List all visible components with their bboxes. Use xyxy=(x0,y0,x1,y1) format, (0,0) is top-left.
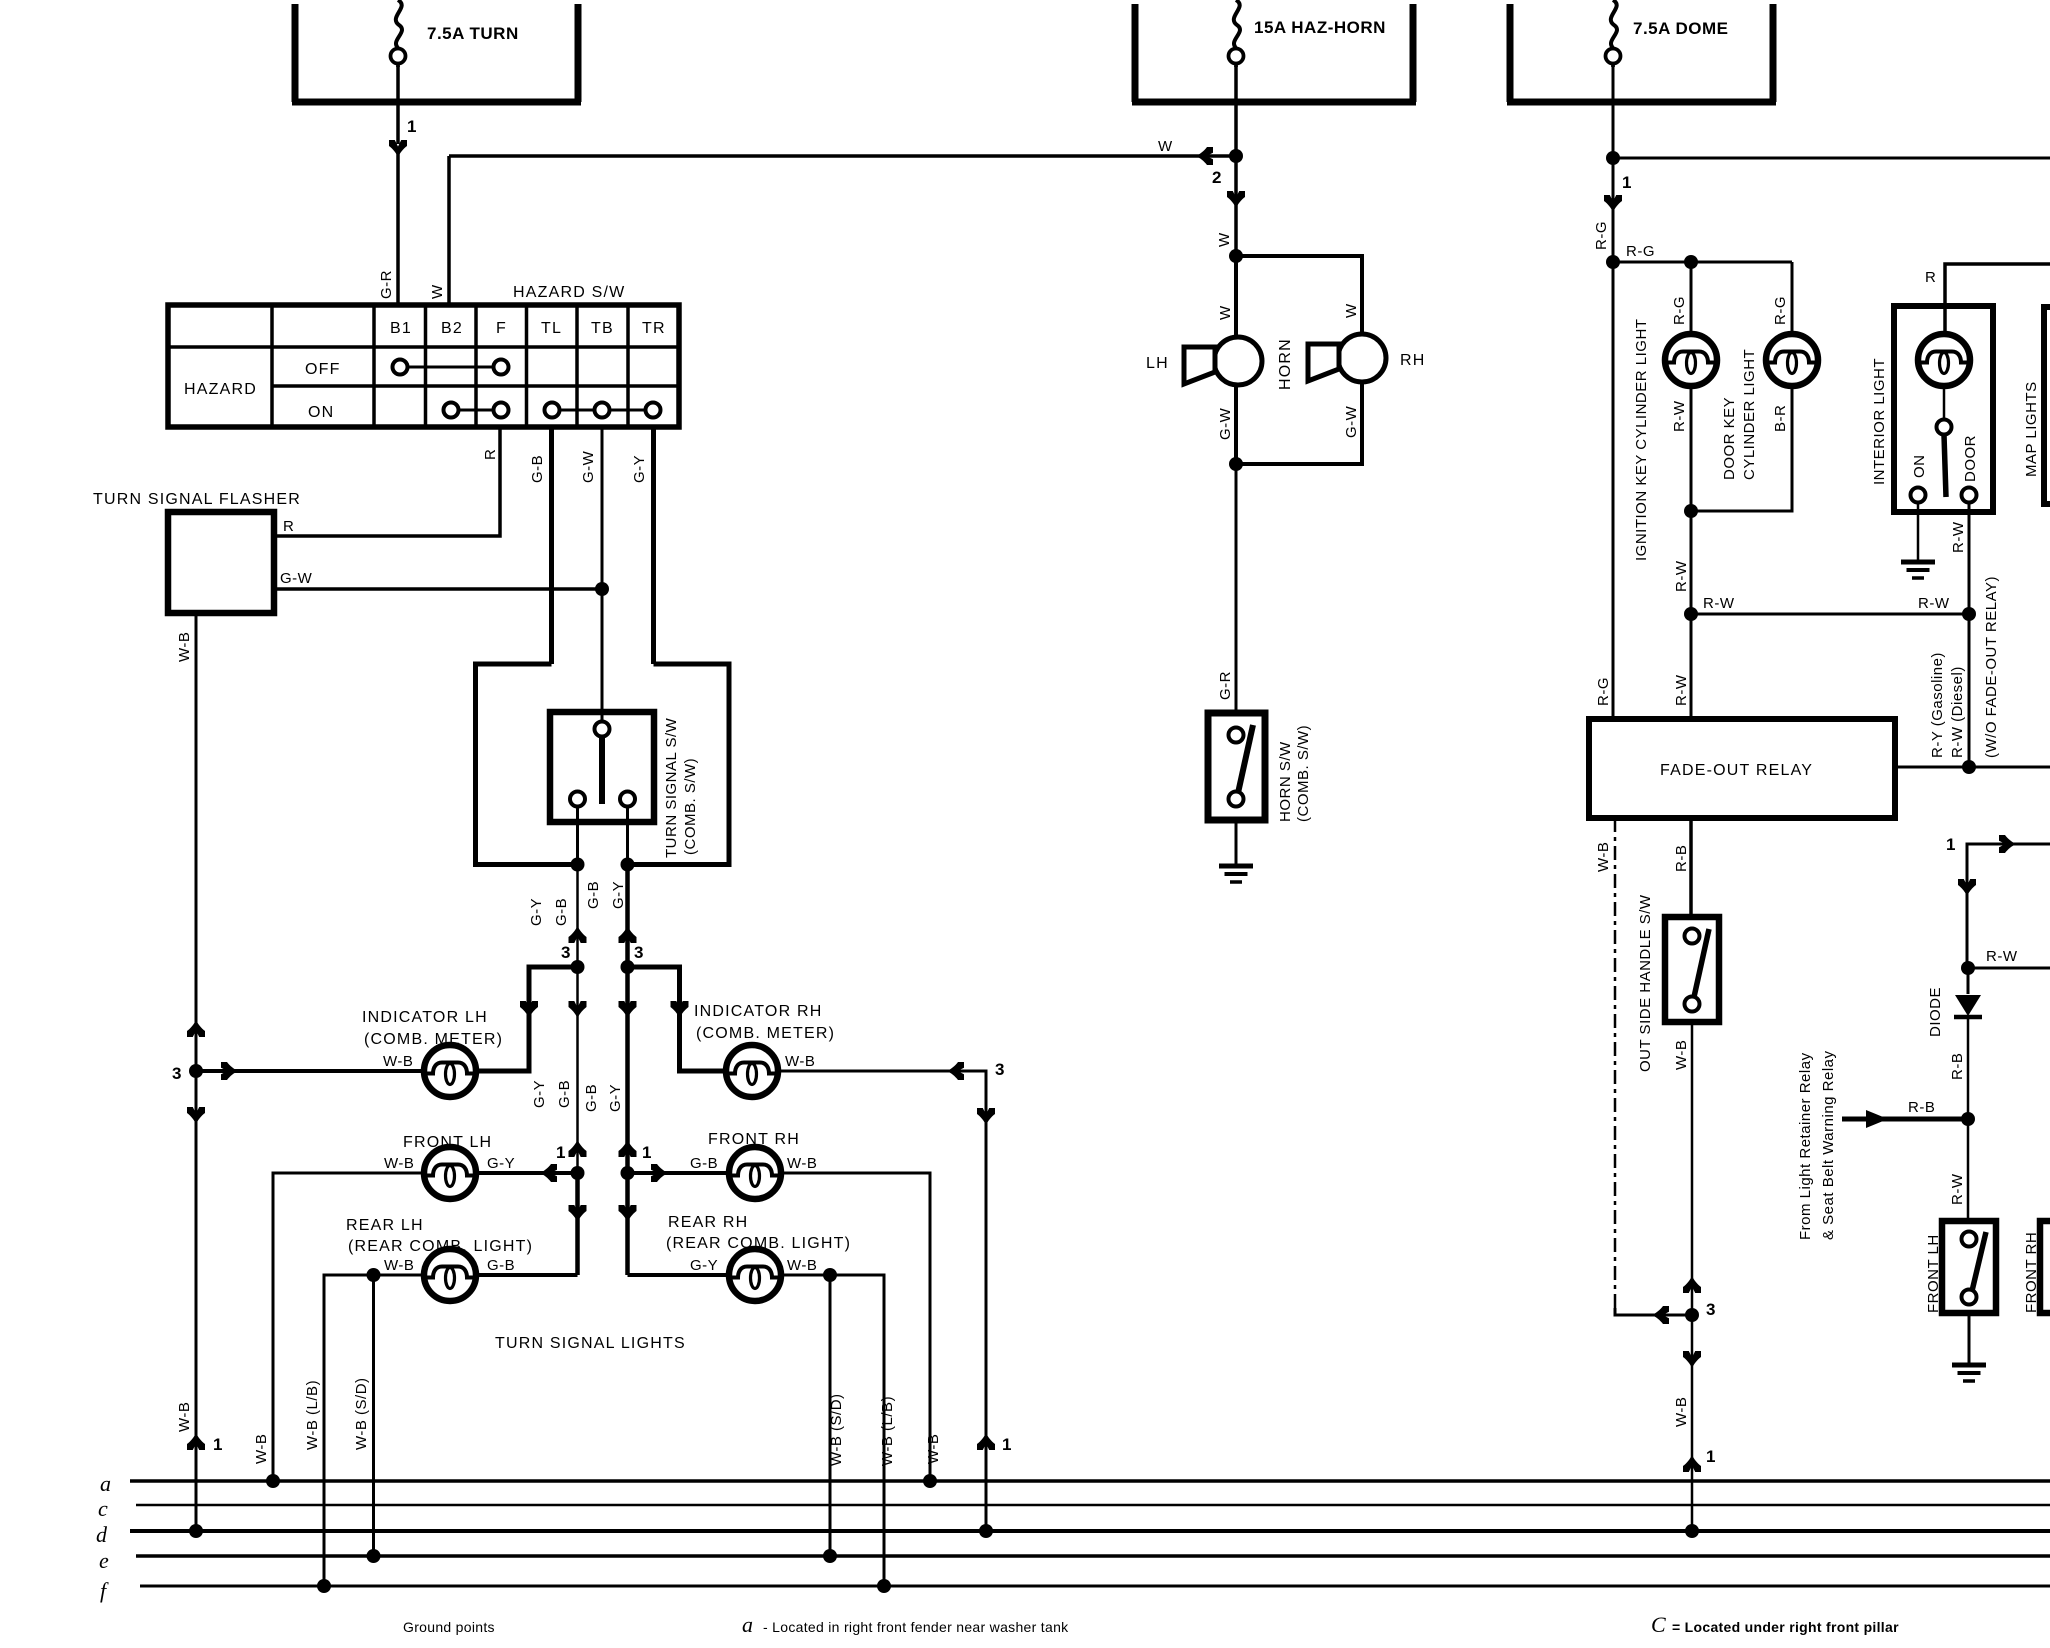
arrow down on G-Y main below 1 xyxy=(619,1205,637,1222)
svg-text:CYLINDER LIGHT: CYLINDER LIGHT xyxy=(1741,349,1758,480)
arrow up on W-B at bus xyxy=(1683,1455,1701,1472)
svg-text:TB: TB xyxy=(591,320,614,337)
label R (on F drop) xyxy=(482,449,499,460)
arrow down on indicator RH drop xyxy=(977,1108,995,1125)
junction front LH W-B on bus a xyxy=(266,1474,280,1488)
lamp indicator RH xyxy=(726,1045,778,1097)
label FRONT RH (switch) xyxy=(2023,1232,2040,1313)
arrow down on G-B main below 3 xyxy=(569,1001,587,1018)
svg-text:15A HAZ-HORN: 15A HAZ-HORN xyxy=(1254,18,1386,37)
label W-B (front LH drop) xyxy=(253,1434,270,1464)
label G-Y G-B (left pair mid) xyxy=(531,1080,573,1108)
label G-W (horn RH) xyxy=(1343,405,1360,438)
label TURN SIGNAL LIGHTS xyxy=(495,1335,686,1352)
svg-text:W-B: W-B xyxy=(1673,1040,1690,1070)
wire W-B from flasher down to bus d xyxy=(195,613,198,1531)
svg-text:OUT SIDE HANDLE S/W: OUT SIDE HANDLE S/W xyxy=(1637,894,1654,1072)
arrow left on W wire xyxy=(1196,147,1213,165)
label W-B (flasher drop lower) xyxy=(176,1402,193,1432)
svg-text:HORN: HORN xyxy=(1277,338,1294,390)
svg-text:LH: LH xyxy=(1146,355,1169,372)
svg-text:INDICATOR LH: INDICATOR LH xyxy=(362,1009,488,1026)
label R-B (relay) xyxy=(1673,845,1690,872)
arrow up on indicator RH drop bottom xyxy=(977,1433,995,1450)
svg-text:G-Y: G-Y xyxy=(607,1084,624,1112)
hazard ON contacts TL-TB-TR xyxy=(545,403,661,418)
node 3 right xyxy=(634,943,643,962)
svg-text:TURN SIGNAL LIGHTS: TURN SIGNAL LIGHTS xyxy=(495,1335,686,1352)
svg-text:C: C xyxy=(1651,1612,1666,1637)
svg-text:B-R: B-R xyxy=(1772,405,1789,432)
svg-text:G-W: G-W xyxy=(1217,407,1234,440)
junction 1 left xyxy=(571,1166,585,1180)
node 1 (dome) xyxy=(1622,173,1631,192)
svg-text:W: W xyxy=(1158,138,1173,155)
svg-text:1: 1 xyxy=(213,1435,222,1454)
fuse F1 7.5A TURN xyxy=(391,0,406,67)
junction R-W branch xyxy=(1684,607,1698,621)
label G-R (horn switch) xyxy=(1217,671,1234,700)
label B-R (door key bulb) xyxy=(1772,405,1789,432)
label G-Y (TR drop) xyxy=(631,455,648,483)
wire relay output right xyxy=(1895,766,2050,769)
junction front RH W-B on bus a xyxy=(923,1474,937,1488)
lamp front RH xyxy=(729,1147,781,1199)
label R-W (diode branch) xyxy=(1986,948,2018,965)
arrow down on G-R feed xyxy=(389,140,407,157)
arrow down on indicator RH branch xyxy=(671,1001,689,1018)
svg-text:1: 1 xyxy=(1946,835,1955,854)
node 1 (flasher drop) xyxy=(213,1435,222,1454)
node 2 xyxy=(1212,168,1221,187)
svg-text:3: 3 xyxy=(561,943,570,962)
svg-text:W-B: W-B xyxy=(176,632,193,662)
svg-text:R-W: R-W xyxy=(1986,948,2018,965)
fuse F2 15A HAZ-HORN xyxy=(1229,0,1244,67)
wire R from hazard F to flasher xyxy=(274,427,500,536)
label W (horizontal feed) xyxy=(1158,138,1173,155)
wire R-B from light retainer relay xyxy=(1842,1117,1968,1122)
label (COMB. S/W) xyxy=(682,758,699,855)
branch to indicator RH xyxy=(628,967,727,1071)
fuse box TURN xyxy=(292,4,581,102)
ground (horn switch) xyxy=(1219,866,1253,882)
label G-Y G-B (left pair above) xyxy=(528,898,570,926)
junction W at fuse drop xyxy=(1229,149,1243,163)
wire ON contact to ground xyxy=(1917,502,1920,562)
lamp front LH xyxy=(424,1147,476,1199)
outside handle switch xyxy=(1665,917,1719,1022)
label W-B (front LH) xyxy=(384,1155,414,1172)
svg-text:G-B: G-B xyxy=(556,1080,573,1108)
node 1 right xyxy=(642,1143,651,1162)
junction G-Y below switch xyxy=(621,858,635,872)
node 1 (diode branch) xyxy=(1946,835,1955,854)
junction rear LH W-B (S/D) on bus e xyxy=(367,1549,381,1563)
wire W horizontal feed to hazard switch B2 xyxy=(449,154,1236,158)
wire G-R down to hazard switch B1 xyxy=(396,152,400,305)
label R-W (front LH switch) xyxy=(1949,1173,1966,1205)
svg-text:7.5A DOME: 7.5A DOME xyxy=(1633,19,1729,38)
svg-text:REAR RH: REAR RH xyxy=(668,1214,748,1231)
label ON xyxy=(308,404,334,421)
label R-G (to relay) xyxy=(1595,677,1612,706)
lamp ignition key cylinder light xyxy=(1665,334,1717,386)
svg-text:R-B: R-B xyxy=(1949,1053,1966,1080)
svg-text:R: R xyxy=(283,518,294,535)
wire R from interior light up to edge xyxy=(1945,264,2050,334)
svg-text:G-R: G-R xyxy=(1217,671,1234,700)
wire G-Y junction to front RH xyxy=(628,1171,730,1175)
svg-text:OFF: OFF xyxy=(305,361,341,378)
fade-out relay xyxy=(1589,719,1895,818)
arrow right on branch top xyxy=(1999,835,2016,853)
svg-text:1: 1 xyxy=(1706,1447,1715,1466)
svg-text:- Located in right front fende: - Located in right front fender near was… xyxy=(763,1619,1069,1635)
wire G-Y main down xyxy=(625,865,630,1276)
label REAR LH (REAR COMB. LIGHT) xyxy=(346,1217,533,1255)
svg-text:W-B: W-B xyxy=(1595,842,1612,872)
svg-text:HAZARD: HAZARD xyxy=(184,381,257,398)
svg-text:(COMB. METER): (COMB. METER) xyxy=(696,1025,835,1042)
label W (horn LH) xyxy=(1217,305,1234,320)
junction R-W diode xyxy=(1961,961,1975,975)
svg-text:W-B: W-B xyxy=(785,1053,815,1070)
svg-text:HORN S/W: HORN S/W xyxy=(1277,741,1294,822)
wire horn LH down xyxy=(1234,385,1238,464)
lamp rear LH xyxy=(424,1249,476,1301)
svg-text:R-G: R-G xyxy=(1671,296,1688,325)
wire G-Y main to rear RH xyxy=(628,1273,730,1277)
node 1 (to turn signal circuit) xyxy=(407,117,416,136)
lamp door key cylinder light xyxy=(1766,334,1818,386)
svg-text:G-B: G-B xyxy=(690,1155,718,1172)
svg-text:DOOR KEY: DOOR KEY xyxy=(1721,397,1738,480)
junction flasher W-B on bus d xyxy=(189,1524,203,1538)
svg-text:W: W xyxy=(1216,232,1233,247)
map lights box xyxy=(2044,307,2050,504)
front RH door switch xyxy=(2040,1221,2050,1313)
label DIODE xyxy=(1927,987,1944,1037)
svg-text:From Light Retainer Relay: From Light Retainer Relay xyxy=(1797,1052,1814,1240)
label R-W (right of branch) xyxy=(1918,595,1950,612)
wire door key bulb to junction xyxy=(1691,386,1792,511)
arrow up on G-B main above 1 xyxy=(569,1140,587,1157)
svg-text:G-W: G-W xyxy=(580,450,597,483)
label R-B (incoming) xyxy=(1908,1099,1935,1116)
junction dome branch xyxy=(1606,151,1620,165)
label ON xyxy=(1911,455,1928,479)
label R-W (left of branch) xyxy=(1703,595,1735,612)
svg-text:(COMB. METER): (COMB. METER) xyxy=(364,1031,503,1048)
svg-text:1: 1 xyxy=(1002,1435,1011,1454)
arrow down on W-B below 3 xyxy=(1683,1351,1701,1368)
wire G-Y from hazard TR down xyxy=(651,427,656,664)
wire G-W flasher to TB drop xyxy=(274,587,602,591)
junction 3 left xyxy=(571,960,585,974)
svg-text:W-B: W-B xyxy=(383,1053,413,1070)
hazard OFF contacts B1-F xyxy=(393,360,509,375)
wire to door key bulb xyxy=(1791,262,1794,334)
svg-text:R: R xyxy=(1925,269,1936,286)
svg-text:DOOR: DOOR xyxy=(1962,435,1979,482)
label TURN SIGNAL S/W xyxy=(663,717,680,858)
svg-text:TURN SIGNAL S/W: TURN SIGNAL S/W xyxy=(663,717,680,858)
svg-text:FADE-OUT RELAY: FADE-OUT RELAY xyxy=(1660,762,1813,779)
wire TL contact to junction xyxy=(576,806,579,865)
ground bus e xyxy=(99,1548,2050,1573)
lamp rear RH xyxy=(729,1249,781,1301)
svg-text:G-B: G-B xyxy=(529,455,546,483)
junction R-B xyxy=(1961,1112,1975,1126)
wire R-G main down to relay xyxy=(1612,262,1615,719)
wire G-B from hazard TL down xyxy=(549,427,554,664)
svg-text:G-Y: G-Y xyxy=(631,455,648,483)
svg-text:W-B: W-B xyxy=(925,1434,942,1464)
ground bus a xyxy=(100,1471,2050,1496)
wire ignition bulb down xyxy=(1690,386,1693,614)
svg-text:ON: ON xyxy=(308,404,334,421)
label 15A HAZ-HORN xyxy=(1254,18,1386,37)
arrow right (triangle) on R-B xyxy=(1866,1110,1888,1128)
svg-text:W: W xyxy=(1217,305,1234,320)
node 3 left xyxy=(561,943,570,962)
diode D1 xyxy=(1954,995,1982,1017)
label G-B (front RH) xyxy=(690,1155,718,1172)
svg-text:& Seat Belt Warning Relay: & Seat Belt Warning Relay xyxy=(1820,1050,1837,1240)
label DOOR KEY CYLINDER LIGHT xyxy=(1721,349,1758,480)
junction key lights R-W xyxy=(1684,504,1698,518)
svg-text:W-B: W-B xyxy=(253,1434,270,1464)
arrow left on indicator RH wire xyxy=(947,1062,964,1080)
label W-B (rear RH) xyxy=(787,1257,817,1274)
svg-text:G-R: G-R xyxy=(378,270,395,299)
label W-B (indicator LH) xyxy=(383,1053,413,1070)
svg-text:1: 1 xyxy=(642,1143,651,1162)
wire HAZ-HORN fuse down to W junction xyxy=(1234,66,1238,256)
wire to ignition key bulb xyxy=(1690,262,1693,334)
ground bus d xyxy=(96,1522,2050,1547)
label R-G (branch) xyxy=(1626,243,1655,260)
label G-B (TL drop) xyxy=(529,455,546,483)
svg-text:G-B: G-B xyxy=(583,1084,600,1112)
label R-W (to relay) xyxy=(1673,674,1690,706)
svg-text:ON: ON xyxy=(1911,455,1928,479)
svg-text:W-B: W-B xyxy=(787,1155,817,1172)
svg-text:R-G: R-G xyxy=(1772,296,1789,325)
svg-text:TURN SIGNAL FLASHER: TURN SIGNAL FLASHER xyxy=(93,491,301,508)
arrow left on front LH wire xyxy=(540,1164,557,1182)
label G-Y (front LH) xyxy=(487,1155,515,1172)
pin B2 xyxy=(441,320,463,337)
svg-text:c: c xyxy=(98,1496,108,1521)
label 7.5A DOME xyxy=(1633,19,1729,38)
label W (horn RH) xyxy=(1343,303,1360,318)
junction rear RH W-B xyxy=(823,1268,837,1282)
wire handle switch down to bus d xyxy=(1691,1022,1694,1531)
front LH door switch xyxy=(1942,1221,1996,1313)
hazard switch HAZARD S/W xyxy=(168,284,679,427)
svg-text:R-G: R-G xyxy=(1626,243,1655,260)
hazard loop G-B left side xyxy=(476,664,578,865)
label HORN S/W xyxy=(1277,741,1294,822)
node 3 (handle switch) xyxy=(1706,1300,1715,1319)
wire W-B rear RH to buses xyxy=(781,1275,884,1586)
node 3 (W-B) xyxy=(172,1064,181,1083)
svg-text:W-B: W-B xyxy=(384,1257,414,1274)
wire R-W down to relay xyxy=(1690,614,1693,719)
wire R-B relay to handle switch xyxy=(1689,818,1693,917)
arrow down on G-Y main below 3 xyxy=(619,1001,637,1018)
label MAP LIGHTS xyxy=(2023,381,2040,477)
label 7.5A TURN xyxy=(427,24,519,43)
label W-B (S/D) left xyxy=(353,1377,370,1450)
svg-text:RH: RH xyxy=(1400,352,1426,369)
label W-B (front RH drop) xyxy=(925,1434,942,1464)
node 1 left xyxy=(556,1143,565,1162)
label R-W (ignition bulb) xyxy=(1671,400,1688,432)
arrow down on indicator LH branch xyxy=(520,1001,538,1018)
label W-B (flasher ground) xyxy=(176,632,193,662)
svg-text:G-Y: G-Y xyxy=(690,1257,718,1274)
svg-text:3: 3 xyxy=(634,943,643,962)
wire front LH switch to ground xyxy=(1968,1313,1971,1365)
wire W-B front RH to bus a xyxy=(781,1173,930,1481)
label W-B (L/B) right xyxy=(879,1396,896,1466)
svg-text:R-Y (Gasoline): R-Y (Gasoline) xyxy=(1929,652,1946,758)
wire diode to R-B junction xyxy=(1967,1017,1970,1119)
label R-W (above junction) xyxy=(1673,560,1690,592)
arrow down below haz-horn junction xyxy=(1227,191,1245,208)
svg-text:R-W: R-W xyxy=(1703,595,1735,612)
svg-text:R-W: R-W xyxy=(1949,1173,1966,1205)
label IGNITION KEY CYLINDER LIGHT xyxy=(1633,319,1650,561)
wire horn LH drop xyxy=(1234,256,1238,338)
interior light assembly xyxy=(1894,306,1993,512)
wire diode branch top to edge xyxy=(1967,844,2050,968)
label R-G (ignition bulb) xyxy=(1671,296,1688,325)
svg-text:2: 2 xyxy=(1212,168,1221,187)
ground (front LH switch) xyxy=(1952,1365,1986,1381)
arrow up on flasher drop xyxy=(187,1433,205,1450)
svg-text:REAR LH: REAR LH xyxy=(346,1217,424,1234)
svg-text:W: W xyxy=(429,284,446,299)
wire R-W to front LH switch xyxy=(1967,1119,1970,1221)
wire horn RH branch top xyxy=(1236,256,1362,336)
svg-text:W-B: W-B xyxy=(787,1257,817,1274)
svg-text:W-B (L/B): W-B (L/B) xyxy=(879,1396,896,1466)
wire G-B main down xyxy=(576,865,579,1276)
wire DOME fuse down xyxy=(1612,66,1615,262)
pin TL xyxy=(541,320,562,337)
svg-text:HAZARD S/W: HAZARD S/W xyxy=(513,284,625,301)
label R-G (feed) xyxy=(1593,221,1610,250)
label HAZARD xyxy=(184,381,257,398)
svg-text:G-B: G-B xyxy=(553,898,570,926)
label W on horn feed xyxy=(1216,232,1233,247)
label INDICATOR RH (COMB. METER) xyxy=(694,1003,835,1042)
wire W-B branch to indicator LH xyxy=(196,1069,424,1073)
svg-text:G-Y: G-Y xyxy=(528,898,545,926)
label R (at flasher) xyxy=(283,518,294,535)
label W-B (relay) xyxy=(1595,842,1612,872)
wire TR contact to junction xyxy=(626,806,629,865)
svg-text:R-G: R-G xyxy=(1595,677,1612,706)
junction 3 right xyxy=(621,960,635,974)
svg-text:R-G: R-G xyxy=(1593,221,1610,250)
arrow down on G-B main below 1 xyxy=(569,1205,587,1222)
wire R-W horizontal to interior light drop xyxy=(1691,613,1969,616)
label R (interior light) xyxy=(1925,269,1936,286)
arrow up on W-B above 3 xyxy=(1683,1276,1701,1293)
wire horn RH down to junction xyxy=(1236,382,1362,464)
svg-text:W-B (S/D): W-B (S/D) xyxy=(828,1393,845,1466)
label OUT SIDE HANDLE S/W xyxy=(1637,894,1654,1072)
svg-text:1: 1 xyxy=(1622,173,1631,192)
svg-text:R-W: R-W xyxy=(1918,595,1950,612)
wire W-B rear LH to buses xyxy=(324,1275,424,1586)
arrow up on G-Y main above 1 xyxy=(619,1140,637,1157)
svg-text:3: 3 xyxy=(995,1060,1004,1079)
wire dome branch to right edge xyxy=(1613,157,2050,160)
label G-R xyxy=(378,270,395,299)
junction rear RH W-B (L/B) on bus f xyxy=(877,1579,891,1593)
ground bus f xyxy=(100,1578,2050,1603)
label FRONT RH xyxy=(708,1131,800,1148)
svg-text:G-Y: G-Y xyxy=(531,1080,548,1108)
svg-text:R: R xyxy=(482,449,499,460)
pin F xyxy=(496,320,507,337)
svg-text:W: W xyxy=(1343,303,1360,318)
junction G-B below switch xyxy=(571,858,585,872)
label W-B (to bus) xyxy=(1673,1397,1690,1427)
junction ignition key light xyxy=(1684,255,1698,269)
wire G-R down to horn switch xyxy=(1235,464,1238,714)
node 1 (handle switch drop) xyxy=(1706,1447,1715,1466)
label G-B G-Y (right pair above) xyxy=(585,881,627,909)
junction 1 right xyxy=(621,1166,635,1180)
junction horn branch xyxy=(1229,249,1243,263)
label W-B (indicator RH) xyxy=(785,1053,815,1070)
svg-text:R-B: R-B xyxy=(1908,1099,1935,1116)
svg-text:1: 1 xyxy=(556,1143,565,1162)
svg-text:MAP LIGHTS: MAP LIGHTS xyxy=(2023,381,2040,477)
arrow down on R-G feed xyxy=(1604,195,1622,212)
svg-text:(W/O FADE-OUT RELAY): (W/O FADE-OUT RELAY) xyxy=(1983,576,2000,758)
label W-B (S/D) right xyxy=(828,1393,845,1466)
wire indicator RH to drop xyxy=(778,1071,986,1531)
hazard loop G-Y right side xyxy=(628,664,730,865)
wire into diode xyxy=(1967,968,1970,994)
svg-text:G-B: G-B xyxy=(487,1257,515,1274)
label W-B (L/B) left xyxy=(304,1380,321,1450)
lamp interior light xyxy=(1918,334,1970,386)
wire fuse TURN to arrow xyxy=(396,66,400,144)
fuse box HAZ-HORN xyxy=(1132,4,1416,102)
label Ground points xyxy=(403,1619,495,1635)
wire horn switch to ground xyxy=(1235,820,1238,866)
label W-B (rear LH) xyxy=(384,1257,414,1274)
svg-text:a: a xyxy=(100,1471,111,1496)
label W (B2 drop) xyxy=(429,284,446,299)
junction rear RH W-B (S/D) on bus e xyxy=(823,1549,837,1563)
arrow down on diode branch xyxy=(1958,879,1976,896)
svg-text:TR: TR xyxy=(642,320,666,337)
label REAR RH (REAR COMB. LIGHT) xyxy=(666,1214,851,1252)
label RH xyxy=(1400,352,1426,369)
svg-text:R-W: R-W xyxy=(1673,560,1690,592)
pin TB xyxy=(591,320,614,337)
